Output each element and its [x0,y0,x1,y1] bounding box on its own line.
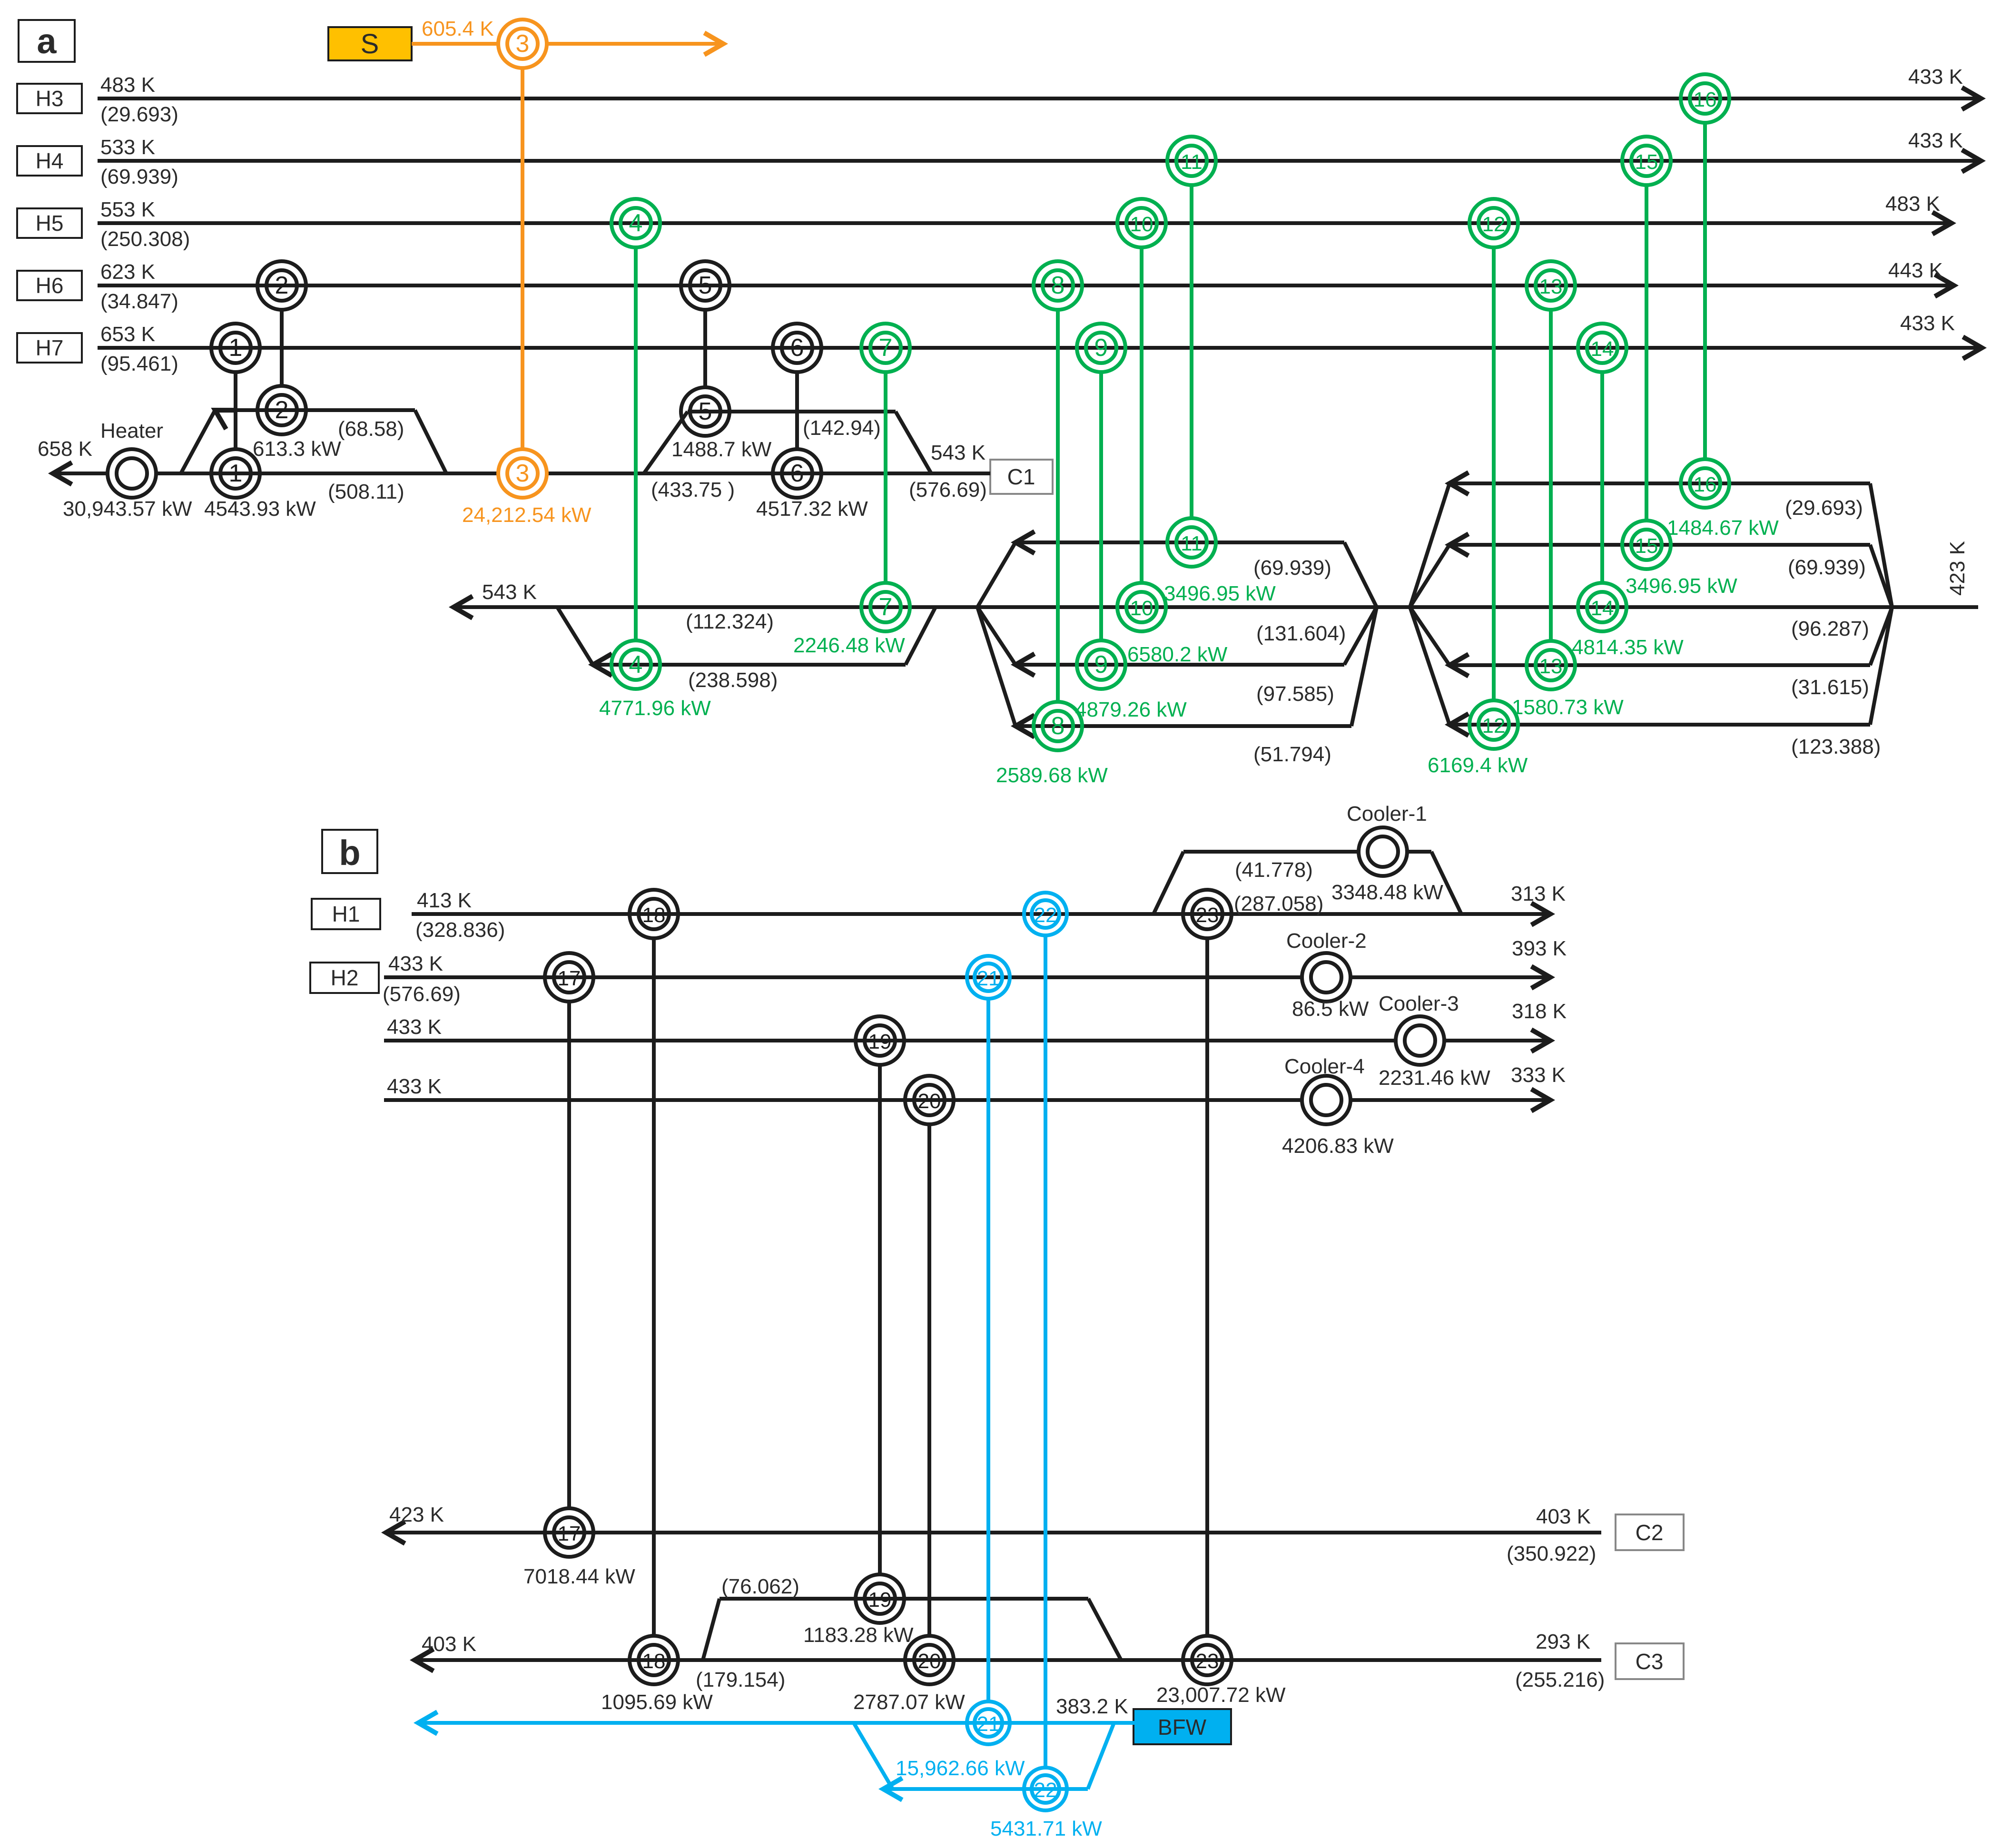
svg-text:433 K: 433 K [1908,129,1963,152]
svg-text:6169.4 kW: 6169.4 kW [1428,754,1528,777]
svg-text:H1: H1 [332,902,360,926]
svg-text:5431.71 kW: 5431.71 kW [990,1817,1102,1840]
svg-text:543 K: 543 K [482,580,537,604]
svg-text:4814.35 kW: 4814.35 kW [1572,636,1684,659]
svg-text:(250.308): (250.308) [100,227,190,251]
svg-text:1580.73 kW: 1580.73 kW [1512,696,1624,719]
svg-text:2: 2 [275,272,289,299]
svg-text:2246.48 kW: 2246.48 kW [793,634,905,657]
svg-text:1095.69 kW: 1095.69 kW [601,1691,713,1714]
svg-text:(433.75 ): (433.75 ) [651,478,735,501]
svg-text:12: 12 [1482,213,1506,236]
svg-text:9: 9 [1094,334,1108,362]
svg-text:533 K: 533 K [100,136,155,159]
svg-text:(142.94): (142.94) [803,416,881,440]
svg-text:(41.778): (41.778) [1235,858,1313,882]
svg-text:4771.96 kW: 4771.96 kW [599,697,711,720]
svg-text:17: 17 [558,967,581,990]
svg-text:12: 12 [1482,714,1506,737]
svg-text:(576.69): (576.69) [909,478,987,501]
svg-text:H4: H4 [36,148,64,173]
svg-text:413 K: 413 K [417,889,472,912]
svg-text:(69.939): (69.939) [1788,556,1866,579]
svg-text:9: 9 [1094,651,1108,678]
svg-text:10: 10 [1130,213,1153,236]
svg-text:4517.32 kW: 4517.32 kW [756,497,868,521]
svg-text:86.5 kW: 86.5 kW [1292,997,1369,1021]
svg-text:(576.69): (576.69) [383,983,461,1006]
svg-text:H7: H7 [36,335,64,360]
svg-text:(131.604): (131.604) [1256,622,1346,645]
svg-text:14: 14 [1591,337,1614,361]
svg-text:4: 4 [629,651,643,678]
svg-text:(68.58): (68.58) [338,417,404,441]
svg-text:658 K: 658 K [38,437,92,461]
svg-text:293 K: 293 K [1536,1630,1590,1653]
svg-text:21: 21 [977,1712,1000,1736]
svg-text:24,212.54 kW: 24,212.54 kW [462,503,591,527]
svg-text:4: 4 [629,209,643,237]
svg-text:(287.058): (287.058) [1234,892,1323,915]
svg-text:1: 1 [229,460,243,487]
svg-text:13: 13 [1539,275,1563,298]
svg-text:553 K: 553 K [100,198,155,221]
svg-text:433 K: 433 K [1900,312,1955,335]
svg-text:3: 3 [516,460,530,487]
svg-text:7: 7 [879,593,893,621]
svg-text:3348.48 kW: 3348.48 kW [1331,881,1443,904]
svg-text:23: 23 [1196,1650,1219,1673]
svg-text:8: 8 [1051,712,1065,740]
svg-text:433 K: 433 K [388,952,443,975]
svg-text:318 K: 318 K [1512,1000,1567,1023]
svg-text:423 K: 423 K [389,1503,444,1526]
svg-text:4206.83 kW: 4206.83 kW [1282,1134,1394,1158]
svg-text:18: 18 [642,904,666,927]
svg-text:7: 7 [879,334,893,362]
svg-text:22: 22 [1034,1779,1057,1802]
svg-text:383.2 K: 383.2 K [1056,1695,1128,1718]
svg-text:(69.939): (69.939) [100,165,178,188]
svg-text:313 K: 313 K [1511,882,1566,905]
svg-text:17: 17 [558,1522,581,1545]
svg-text:b: b [339,833,360,873]
svg-text:21: 21 [977,967,1000,990]
svg-text:3: 3 [516,30,530,58]
svg-text:16: 16 [1694,88,1717,111]
svg-text:13: 13 [1539,655,1563,678]
svg-text:30,943.57 kW: 30,943.57 kW [63,497,192,521]
svg-text:623 K: 623 K [100,260,155,284]
svg-text:5: 5 [699,272,712,299]
svg-text:15: 15 [1635,534,1658,558]
svg-text:(51.794): (51.794) [1253,743,1331,766]
svg-text:333 K: 333 K [1511,1063,1566,1087]
svg-text:Cooler-4: Cooler-4 [1284,1055,1365,1078]
svg-text:(350.922): (350.922) [1507,1542,1596,1565]
svg-text:433 K: 433 K [387,1015,442,1039]
svg-text:443 K: 443 K [1888,259,1943,282]
svg-text:6: 6 [790,460,804,487]
svg-text:(123.388): (123.388) [1791,735,1881,758]
svg-text:Heater: Heater [100,419,163,442]
svg-text:4543.93 kW: 4543.93 kW [204,497,316,521]
svg-text:433 K: 433 K [387,1075,442,1098]
svg-text:1: 1 [229,334,243,362]
svg-text:10: 10 [1130,597,1153,620]
svg-text:6: 6 [790,334,804,362]
svg-text:605.4 K: 605.4 K [422,17,494,40]
svg-text:14: 14 [1591,597,1614,620]
svg-text:20: 20 [918,1650,941,1673]
svg-text:543 K: 543 K [931,441,986,464]
svg-text:(97.585): (97.585) [1256,682,1334,706]
svg-text:(29.693): (29.693) [1785,496,1863,520]
svg-text:H3: H3 [36,86,64,111]
svg-text:(96.287): (96.287) [1791,617,1869,640]
svg-text:C1: C1 [1007,464,1035,489]
svg-text:(328.836): (328.836) [415,918,505,942]
svg-text:(238.598): (238.598) [688,668,778,692]
svg-text:7018.44 kW: 7018.44 kW [523,1565,635,1588]
svg-text:483 K: 483 K [100,73,155,97]
svg-text:8: 8 [1051,272,1065,299]
svg-text:Cooler-1: Cooler-1 [1347,802,1427,826]
svg-text:1488.7 kW: 1488.7 kW [671,438,772,461]
svg-text:15,962.66 kW: 15,962.66 kW [896,1757,1025,1780]
svg-text:H6: H6 [36,273,64,298]
svg-text:(76.062): (76.062) [721,1575,799,1598]
svg-text:393 K: 393 K [1512,937,1567,960]
svg-text:Cooler-3: Cooler-3 [1379,992,1459,1015]
svg-text:483 K: 483 K [1885,192,1940,216]
svg-text:403 K: 403 K [422,1632,476,1656]
svg-text:S: S [361,29,379,59]
svg-text:19: 19 [868,1588,892,1612]
svg-text:653 K: 653 K [100,323,155,346]
svg-text:(34.847): (34.847) [100,290,178,313]
svg-text:(112.324): (112.324) [686,610,774,633]
svg-text:433 K: 433 K [1908,65,1963,88]
svg-text:1484.67 kW: 1484.67 kW [1667,516,1779,540]
svg-text:Cooler-2: Cooler-2 [1286,929,1367,953]
svg-text:16: 16 [1694,473,1717,496]
svg-text:(179.154): (179.154) [696,1668,785,1691]
svg-text:23: 23 [1196,904,1219,927]
svg-text:(31.615): (31.615) [1791,676,1869,699]
svg-text:3496.95 kW: 3496.95 kW [1164,582,1276,605]
svg-text:2589.68 kW: 2589.68 kW [996,764,1108,787]
svg-text:1183.28 kW: 1183.28 kW [803,1623,914,1647]
svg-text:a: a [37,21,57,61]
svg-text:(29.693): (29.693) [100,103,178,126]
svg-text:(508.11): (508.11) [328,480,404,503]
svg-text:(255.216): (255.216) [1515,1668,1605,1691]
svg-text:5: 5 [699,398,712,425]
svg-text:2231.46 kW: 2231.46 kW [1379,1066,1490,1090]
svg-text:(95.461): (95.461) [100,352,178,375]
svg-text:23,007.72 kW: 23,007.72 kW [1156,1683,1286,1707]
svg-text:20: 20 [918,1090,941,1113]
svg-text:H5: H5 [36,211,64,236]
svg-text:BFW: BFW [1158,1715,1207,1740]
svg-text:11: 11 [1181,150,1202,174]
svg-text:3496.95 kW: 3496.95 kW [1626,574,1737,598]
svg-text:2787.07 kW: 2787.07 kW [853,1691,965,1714]
svg-text:613.3 kW: 613.3 kW [253,437,341,461]
svg-text:403 K: 403 K [1536,1505,1591,1528]
svg-text:6580.2 kW: 6580.2 kW [1127,643,1228,666]
svg-text:19: 19 [868,1030,892,1053]
svg-text:4879.26 kW: 4879.26 kW [1075,698,1187,721]
svg-text:2: 2 [275,396,289,424]
svg-text:(69.939): (69.939) [1253,556,1331,580]
svg-text:C3: C3 [1636,1649,1664,1674]
svg-text:C2: C2 [1636,1520,1664,1545]
svg-text:18: 18 [642,1650,666,1673]
svg-text:H2: H2 [331,965,359,990]
svg-text:22: 22 [1034,904,1057,927]
svg-text:15: 15 [1635,150,1658,174]
svg-text:423 K: 423 K [1946,541,1969,596]
svg-text:11: 11 [1181,532,1202,555]
